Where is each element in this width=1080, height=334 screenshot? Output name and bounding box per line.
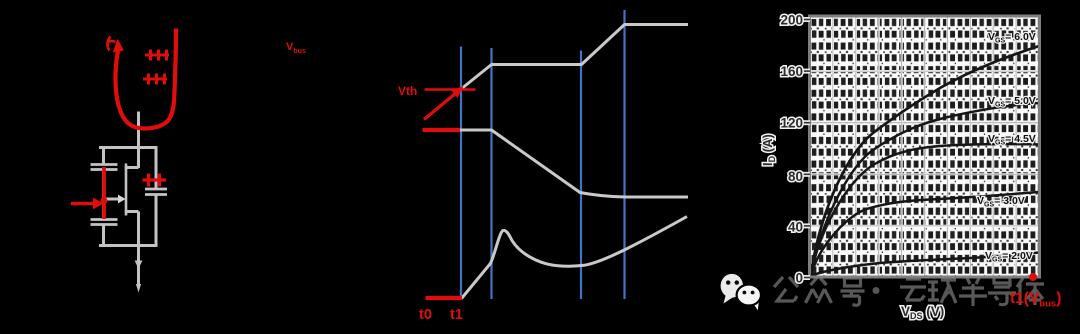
major horizontal gridlines [810, 71, 1039, 226]
y axis labels [780, 13, 803, 286]
svg-text:t0: t0 [419, 307, 432, 323]
transistor Q1 source lead [125, 210, 139, 213]
wechat icon big bubble [721, 274, 743, 304]
watermark text gong [774, 276, 1044, 306]
transistor Q1 gate lead [104, 198, 119, 201]
wire output tip [136, 284, 141, 293]
wire drain top [137, 112, 140, 169]
svg-text:VDS (V): VDS (V) [901, 304, 944, 321]
label I [107, 37, 116, 51]
svg-text:80: 80 [788, 169, 803, 184]
watermark text zhong [806, 276, 832, 303]
Vds initial level red [423, 128, 461, 132]
watermark text hao [841, 278, 865, 305]
watermark text ti [1017, 278, 1044, 305]
svg-text:120: 120 [780, 116, 803, 131]
plus marks row 1 [145, 50, 169, 61]
transistor Q1 channel bar [125, 164, 128, 216]
CHART_GROUP [760, 13, 1040, 322]
current loop [115, 29, 176, 129]
Vgs waveform [456, 25, 689, 94]
wechat icon small bubble [737, 285, 761, 311]
svg-text:200: 200 [780, 13, 803, 28]
svg-text:Vth: Vth [398, 84, 417, 98]
curve VGS 3V [811, 192, 1039, 276]
wire bottom rail [99, 244, 157, 247]
svg-text:t1: t1 [450, 307, 463, 323]
red annotation t1 (Vbus) [1010, 273, 1061, 310]
wire top rail [99, 146, 157, 149]
transistor Q1 gate arrowhead [118, 195, 126, 204]
major vertical gridlines [833, 16, 1016, 277]
Vgs ramp arrow red [424, 93, 456, 120]
input arrow [71, 202, 94, 206]
transistor Q1 drain lead [125, 166, 139, 169]
time marker t4 blue [623, 10, 625, 299]
loop arrowhead [113, 39, 124, 53]
RED_ANNOT_CIRCUIT [71, 29, 176, 220]
WATERMARK [721, 274, 1044, 310]
watermark text ban [959, 278, 987, 306]
time marker t1 blue [460, 47, 462, 300]
watermark text dao [988, 277, 1016, 305]
wire left branch top [102, 146, 105, 164]
capacitor Cgs [91, 220, 118, 225]
svg-text:40: 40 [788, 219, 803, 234]
curve VGS 5V [811, 103, 1039, 276]
CIRCUIT_GROUP [91, 112, 168, 293]
WAVEFORMS [398, 10, 688, 323]
chart border [810, 16, 1040, 277]
Id zero level red [426, 296, 463, 300]
watermark text yun [900, 279, 926, 300]
curve labels [977, 31, 1036, 264]
wire source down [137, 212, 140, 247]
wire output down [137, 246, 140, 287]
y axis ticks [800, 17, 810, 280]
curve VGS 2V [811, 253, 1039, 277]
wire left branch mid [102, 170, 105, 219]
svg-text:160: 160 [780, 64, 803, 79]
watermark text zhuo [928, 280, 956, 303]
current direction marker [135, 261, 143, 270]
wire right branch bottom [155, 195, 158, 247]
curve VGS 6V [811, 46, 1039, 276]
svg-text:0: 0 [795, 271, 803, 286]
Id waveform [462, 217, 688, 299]
Vth level line red [425, 88, 476, 90]
Vds waveform [459, 130, 688, 197]
capacitor Cds [145, 189, 167, 195]
plus marks at Cds [143, 174, 167, 187]
wire right branch top [155, 146, 158, 188]
watermark middle dot [873, 287, 880, 294]
wire left branch bottom [102, 225, 105, 247]
plus marks row 2 [143, 74, 167, 85]
capacitor Cgd [91, 165, 118, 170]
time marker t3 blue [580, 51, 582, 300]
node gate junction [101, 197, 108, 204]
red gate branch highlight [102, 167, 106, 219]
time marker t2 blue [490, 48, 492, 299]
curve VGS 4.5V [811, 144, 1039, 276]
chart background [810, 16, 1039, 277]
